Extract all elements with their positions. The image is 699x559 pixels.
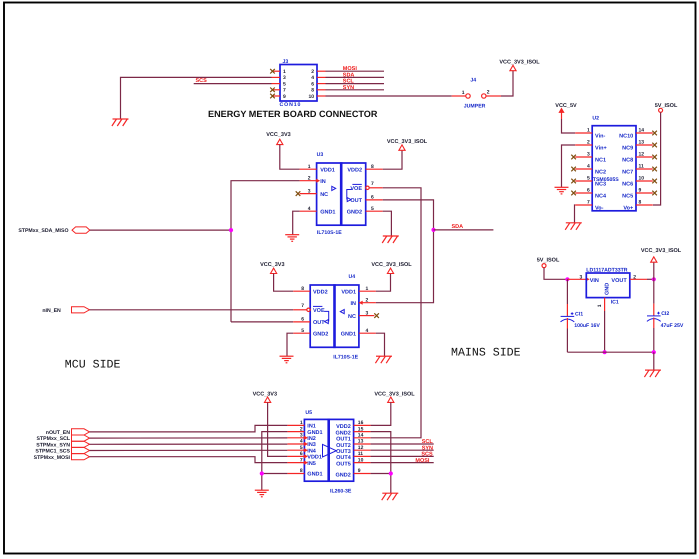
svg-text:1: 1 <box>587 128 590 134</box>
wire U3 pin5 to chassis ground <box>383 211 392 236</box>
pin 9 <box>272 95 281 97</box>
svg-text:CON10: CON10 <box>280 102 302 108</box>
svg-text:VCC_3V3_ISOL: VCC_3V3_ISOL <box>371 262 412 268</box>
capacitor CI2 47uF 25V <box>647 279 684 352</box>
wire U3 OUT to U4 IN <box>376 200 434 303</box>
svg-text:5: 5 <box>300 445 303 451</box>
power symbol VCC_3V3 at U4 <box>271 268 277 273</box>
pin 7 VOE <box>366 186 369 189</box>
wire U5 OUT2 SCL stub <box>371 443 434 445</box>
pin 14 NC10 <box>636 132 653 134</box>
svg-text:nIN_EN: nIN_EN <box>42 308 61 314</box>
pin 2 <box>317 70 326 72</box>
power symbol VCC_5V <box>558 108 564 113</box>
pin 3 <box>272 76 281 78</box>
svg-text:NC7: NC7 <box>622 169 633 175</box>
U4 internal enable path <box>324 311 328 321</box>
wire IC1 VOUT to junction <box>630 278 647 280</box>
op-amp U4 isolator IL710S-1E <box>310 285 359 347</box>
wire SYN <box>326 89 385 91</box>
svg-text:NC10: NC10 <box>619 133 633 139</box>
jumper J4 <box>452 78 501 110</box>
svg-text:SCL: SCL <box>422 439 434 445</box>
junction U5 GND2 <box>389 471 393 475</box>
svg-text:1: 1 <box>462 90 465 96</box>
pin 16 VDD2 <box>354 424 371 426</box>
svg-text:IN4: IN4 <box>307 448 317 454</box>
wire VCC_5V to U2 Vin- <box>561 112 563 120</box>
power symbol 5V_ISOL at IC1 <box>542 264 546 268</box>
svg-text:8: 8 <box>371 164 374 170</box>
pin 5 <box>272 83 281 85</box>
svg-text:J3: J3 <box>283 59 289 65</box>
power symbol VCC_3V3_ISOL <box>510 65 516 70</box>
svg-text:7: 7 <box>587 200 590 206</box>
port STPMxx_MOSI <box>34 454 90 461</box>
svg-text:J4: J4 <box>470 78 476 84</box>
pin 8 VDD2 <box>293 290 310 292</box>
svg-text:5V_ISOL: 5V_ISOL <box>537 257 560 263</box>
svg-text:IN3: IN3 <box>307 442 316 448</box>
svg-text:GND1: GND1 <box>320 209 335 215</box>
svg-text:NC5: NC5 <box>622 193 633 199</box>
svg-text:VIN: VIN <box>590 278 599 284</box>
svg-text:STPMxx_SDA_MISO: STPMxx_SDA_MISO <box>18 228 68 234</box>
svg-text:GND2: GND2 <box>347 209 362 215</box>
svg-text:10: 10 <box>639 176 645 182</box>
svg-text:VCC_3V3_ISOL: VCC_3V3_ISOL <box>387 139 428 145</box>
wire SDA stub <box>434 229 494 231</box>
svg-text:SDA: SDA <box>452 224 464 230</box>
power symbol VCC_3V3_ISOL at IC1 <box>651 257 657 262</box>
power symbol VCC_3V3_ISOL at U4 <box>387 268 393 273</box>
svg-text:LD1117ADT33TR: LD1117ADT33TR <box>586 268 627 274</box>
svg-text:ENERGY METER BOARD CONNECTOR: ENERGY METER BOARD CONNECTOR <box>208 109 378 119</box>
svg-text:12: 12 <box>358 445 364 451</box>
wire U5 GND1 net to ground <box>262 432 288 490</box>
svg-text:1: 1 <box>300 420 303 426</box>
svg-text:SDA: SDA <box>343 72 355 78</box>
wire U4 pin5 to ground <box>287 333 293 356</box>
op-amp U3 isolator IL710S-1E <box>317 163 366 225</box>
svg-text:NC6: NC6 <box>622 181 633 187</box>
svg-text:VDD2: VDD2 <box>336 424 351 430</box>
svg-text:11: 11 <box>358 451 364 457</box>
pin 6 <box>317 83 326 85</box>
svg-text:VDD2: VDD2 <box>313 289 328 295</box>
ground below U2 Vin+ <box>555 187 569 194</box>
pin 8 Vo+ <box>636 204 653 206</box>
svg-text:VCC_3V3_ISOL: VCC_3V3_ISOL <box>374 391 415 397</box>
svg-text:STPMxx_SCL: STPMxx_SCL <box>37 436 71 442</box>
svg-text:9: 9 <box>283 94 286 100</box>
pin 8 VDD2 <box>366 168 383 170</box>
svg-text:CI1: CI1 <box>575 312 583 318</box>
wire junction to VCC_3V3_ISOL <box>653 262 655 279</box>
svg-text:6: 6 <box>371 195 374 201</box>
svg-text:NC: NC <box>348 314 356 320</box>
svg-text:MOSI: MOSI <box>415 458 430 464</box>
svg-text:NC2: NC2 <box>595 169 606 175</box>
svg-text:NC1: NC1 <box>595 157 606 163</box>
svg-text:OUT: OUT <box>313 320 325 326</box>
svg-text:2: 2 <box>487 90 490 96</box>
pin 7 Vo- <box>575 204 592 206</box>
svg-text:GND2: GND2 <box>336 430 351 436</box>
wire STPMxx_SYN to U5 IN3 <box>90 443 288 445</box>
pin 3 NC no-connect <box>300 193 317 195</box>
wire ground rail <box>567 351 653 353</box>
svg-text:9: 9 <box>358 468 361 474</box>
svg-text:10: 10 <box>308 94 314 100</box>
pin 2 IN <box>300 180 317 182</box>
pin 10 <box>317 95 326 97</box>
U5 internal buffer symbol <box>323 444 337 457</box>
port STPMxx_SYN <box>36 441 89 448</box>
wire J4 to VCC_3V3_ISOL <box>501 71 513 96</box>
junction STPMxx_SDA_MISO <box>229 228 233 232</box>
wire U4 pin1 to VCC_3V3_ISOL <box>376 274 391 292</box>
svg-text:8: 8 <box>311 88 314 94</box>
wire VIN junction to IC1 <box>567 278 586 280</box>
svg-text:IN2: IN2 <box>307 436 316 442</box>
pin 5 IN4 <box>287 449 304 451</box>
svg-text:7: 7 <box>300 457 303 463</box>
svg-text:3: 3 <box>308 188 311 194</box>
wire STPMxx_SDA_MISO net <box>90 229 231 231</box>
svg-text:16: 16 <box>358 420 364 426</box>
pin 12 OUT3 <box>354 449 371 451</box>
svg-text:Vin+: Vin+ <box>595 145 607 151</box>
wire U2 Vo+ to 5V_ISOL <box>653 112 661 205</box>
svg-text:6: 6 <box>300 451 303 457</box>
svg-text:11: 11 <box>639 164 645 170</box>
wire 5V_ISOL to IC1 VIN <box>544 268 567 280</box>
wire SDA <box>326 76 385 78</box>
wire VCC_3V3_ISOL to U5 VDD2 <box>371 402 391 425</box>
port STPMC1_SCS <box>35 447 89 454</box>
svg-text:VDD2: VDD2 <box>347 167 362 173</box>
pin 9 NC5 <box>636 192 653 194</box>
svg-text:NC4: NC4 <box>595 193 607 199</box>
svg-text:8: 8 <box>301 286 304 292</box>
wire U2 Vin+ to ground <box>562 145 576 187</box>
junction VOUT <box>652 277 656 281</box>
chassis ground below U5 right <box>382 493 399 500</box>
U4 internal buffer symbol <box>340 310 344 314</box>
wire nOUT_EN to U5 IN1 <box>90 425 288 432</box>
pin 6 OUT <box>366 199 383 201</box>
svg-text:NC9: NC9 <box>622 145 633 151</box>
svg-text:OUT3: OUT3 <box>336 449 351 455</box>
wire SCS stub pin 5 <box>194 83 272 85</box>
pin 10 NC6 <box>636 180 653 182</box>
pin 3 NC no-connect <box>359 315 375 317</box>
pin 7 VOE <box>307 308 310 311</box>
svg-text:MCU SIDE: MCU SIDE <box>65 359 121 372</box>
svg-text:14: 14 <box>358 433 364 439</box>
svg-text:SYN: SYN <box>422 445 433 451</box>
port nIN_EN <box>42 307 89 314</box>
svg-text:3: 3 <box>300 433 303 439</box>
svg-text:3: 3 <box>366 310 369 316</box>
svg-text:3: 3 <box>580 274 583 280</box>
pin 15 GND2 <box>354 431 371 433</box>
power symbol 5V_ISOL <box>659 108 663 112</box>
svg-text:1: 1 <box>597 304 603 307</box>
wire VCC_3V3 to U4 pin 8 <box>274 274 294 292</box>
wire U3 VOE to U5 OUT1 <box>371 188 421 438</box>
svg-text:5: 5 <box>587 176 590 182</box>
svg-text:14: 14 <box>639 128 645 134</box>
svg-text:4: 4 <box>587 164 590 170</box>
pin 7 IN5 <box>287 462 304 464</box>
svg-text:3: 3 <box>587 152 590 158</box>
pin 13 NC9 <box>636 144 653 146</box>
svg-text:4: 4 <box>311 75 314 81</box>
no-connect pin 7 <box>270 88 275 93</box>
pin 4 GND1 <box>359 332 376 334</box>
pin 10 OUT5 <box>354 462 371 464</box>
svg-text:VCC_3V3: VCC_3V3 <box>266 132 290 138</box>
svg-text:CI2: CI2 <box>661 311 669 317</box>
pin 3 IN2 <box>287 437 304 439</box>
pin 14 OUT1 <box>354 437 371 439</box>
svg-text:12: 12 <box>639 152 645 158</box>
chassis ground below U3 GND2 <box>382 236 399 243</box>
pin 11 OUT4 <box>354 455 371 457</box>
svg-text:1: 1 <box>366 286 369 292</box>
svg-text:100uF 16V: 100uF 16V <box>574 323 600 329</box>
wire STPMxx_SCL to U5 IN2 <box>90 437 288 439</box>
pin 6 NC4 <box>575 192 592 194</box>
pin 4 IN3 <box>287 443 304 445</box>
junction VIN <box>565 277 569 281</box>
pin 13 OUT2 <box>354 443 371 445</box>
svg-text:GND1: GND1 <box>307 430 322 436</box>
svg-text:8: 8 <box>639 200 642 206</box>
svg-text:Vo-: Vo- <box>595 205 604 211</box>
pin 11 NC7 <box>636 168 653 170</box>
pin 1 Vin- <box>575 132 592 134</box>
svg-text:OUT: OUT <box>350 198 362 204</box>
op-amp U2 TSM0505S DC-DC converter <box>592 126 636 211</box>
wire U4 pin4 to chassis ground <box>376 333 385 356</box>
power symbol VCC_3V3_ISOL at U3 <box>399 145 405 150</box>
wire U5 OUT3 SYN stub <box>371 449 434 451</box>
pin 3 NC1 <box>575 156 592 158</box>
ground below U3 GND1 <box>285 235 299 242</box>
ground chassis top-left <box>112 119 129 126</box>
svg-text:IL710S-1E: IL710S-1E <box>317 230 342 236</box>
capacitor CI1 100uF 16V <box>561 279 601 352</box>
svg-text:Vo+: Vo+ <box>623 205 633 211</box>
ground below U4 GND2 <box>280 356 294 363</box>
junction GND rail <box>603 350 607 354</box>
svg-text:5: 5 <box>301 328 304 334</box>
svg-text:VDD1: VDD1 <box>320 167 335 173</box>
svg-text:47uF 25V: 47uF 25V <box>661 323 684 329</box>
svg-text:6: 6 <box>311 81 314 87</box>
pin 6 VDD1 <box>287 455 304 457</box>
svg-text:VOUT: VOUT <box>611 278 627 284</box>
wire MOSI <box>326 70 385 72</box>
svg-text:13: 13 <box>639 140 645 146</box>
svg-text:SCS: SCS <box>421 452 433 458</box>
voltage regulator IC1 LD1117ADT33TR <box>586 273 630 298</box>
svg-text:2: 2 <box>587 140 590 146</box>
power symbol VCC_3V3_ISOL at U5 <box>388 397 394 402</box>
pin 2 GND1 <box>287 431 304 433</box>
svg-text:NC8: NC8 <box>622 157 633 163</box>
svg-text:U4: U4 <box>349 274 356 280</box>
svg-text:5: 5 <box>283 81 286 87</box>
svg-text:U5: U5 <box>305 410 312 416</box>
svg-text:U2: U2 <box>592 115 599 121</box>
wire STPMxx_MOSI to U5 IN5 <box>90 457 288 463</box>
svg-text:STPMC1_SCS: STPMC1_SCS <box>35 449 70 455</box>
svg-text:OUT2: OUT2 <box>336 443 351 449</box>
svg-text:VCC_3V3_ISOL: VCC_3V3_ISOL <box>499 59 540 65</box>
svg-text:U3: U3 <box>317 152 324 158</box>
pin 4 GND1 <box>300 210 317 212</box>
pin 2 IN <box>359 302 376 304</box>
svg-text:2: 2 <box>300 426 303 432</box>
pin 7 <box>272 89 281 91</box>
junction U5 GND1 <box>260 471 264 475</box>
svg-text:4: 4 <box>366 328 369 334</box>
junction SDA <box>431 228 435 232</box>
svg-text:IC1: IC1 <box>611 299 619 305</box>
svg-text:10: 10 <box>358 457 364 463</box>
connector J3 CON10 <box>280 65 317 102</box>
svg-text:nOUT_EN: nOUT_EN <box>46 430 70 436</box>
svg-text:VDD1: VDD1 <box>341 289 356 295</box>
svg-text:GND2: GND2 <box>336 472 351 478</box>
svg-text:STPMxx_SYN: STPMxx_SYN <box>36 442 70 448</box>
svg-text:7: 7 <box>371 181 374 187</box>
svg-text:GND: GND <box>604 283 610 295</box>
pin 9 GND2 <box>354 473 371 475</box>
pin 5 GND2 <box>366 210 383 212</box>
svg-text:IL260-3E: IL260-3E <box>330 489 352 495</box>
svg-text:VCC_3V3_ISOL: VCC_3V3_ISOL <box>641 248 682 254</box>
svg-text:SCL: SCL <box>343 79 355 85</box>
wire VCC_3V3 to U5 VDD1 <box>268 402 288 456</box>
svg-text:VDD1: VDD1 <box>307 455 322 461</box>
svg-text:VCC_5V: VCC_5V <box>555 103 577 109</box>
svg-text:15: 15 <box>358 426 364 432</box>
op-amp U5 IL260-3E <box>304 419 353 481</box>
svg-text:OUT5: OUT5 <box>336 461 351 467</box>
svg-text:9: 9 <box>639 188 642 194</box>
pin 2 Vin+ <box>575 144 592 146</box>
svg-text:5: 5 <box>371 206 374 212</box>
svg-text:OUT4: OUT4 <box>336 455 352 461</box>
wire U3 pin4 to ground <box>293 211 300 234</box>
pin 1 VDD1 <box>300 168 317 170</box>
svg-text:JUMPER: JUMPER <box>464 103 486 109</box>
port nOUT_EN <box>46 429 90 436</box>
pin 5 NC3 <box>575 180 592 182</box>
wire rail to chassis ground <box>653 352 655 370</box>
svg-text:IN: IN <box>351 301 357 307</box>
no-connect pin 9 <box>270 94 275 99</box>
wire U2 Vo- to chassis ground <box>574 205 577 223</box>
svg-text:7: 7 <box>283 88 286 94</box>
wire U5 GND2 net to chassis ground <box>371 432 391 493</box>
svg-text:6: 6 <box>587 188 590 194</box>
wire VCC_3V3 to U3 pin 1 <box>280 145 300 170</box>
pin 12 NC8 <box>636 156 653 158</box>
svg-text:IN1: IN1 <box>307 424 316 430</box>
svg-text:IN5: IN5 <box>307 461 316 467</box>
svg-text:GND1: GND1 <box>341 331 356 337</box>
pin 8 <box>317 89 326 91</box>
pin 8 GND1 <box>287 473 304 475</box>
svg-text:SCS: SCS <box>196 78 208 84</box>
U3 internal buffer symbol <box>332 186 336 190</box>
no-connect pin 1 <box>270 69 275 74</box>
svg-text:STPMxx_MOSI: STPMxx_MOSI <box>34 455 71 461</box>
pin 5 GND2 <box>293 332 310 334</box>
wire SCL <box>326 83 385 85</box>
ground below U5 left <box>255 490 269 497</box>
power symbol VCC_3V3 <box>277 139 283 144</box>
svg-text:VCC_3V3: VCC_3V3 <box>260 262 284 268</box>
port STPMxx_SDA_MISO <box>18 227 89 234</box>
svg-text:VOE: VOE <box>313 308 325 314</box>
wire IC1 GND pin down to rail <box>604 298 606 311</box>
svg-text:VCC_3V3: VCC_3V3 <box>253 391 277 397</box>
junction rail right <box>652 350 656 354</box>
svg-text:NC3: NC3 <box>595 181 606 187</box>
wire pin10 to jumper J4 <box>326 95 452 97</box>
pin 1 <box>272 70 281 72</box>
chassis ground below U4 GND1 <box>375 356 392 363</box>
svg-text:2: 2 <box>308 176 311 182</box>
svg-text:IN: IN <box>320 179 326 185</box>
port STPMxx_SCL <box>37 435 90 442</box>
svg-text:GND1: GND1 <box>307 472 322 478</box>
svg-text:4: 4 <box>300 439 303 445</box>
wire STPMC1_SCS to U5 IN4 <box>90 449 288 451</box>
svg-text:2: 2 <box>366 298 369 304</box>
svg-text:3: 3 <box>283 75 286 81</box>
wire nIN_EN to U4 VOE <box>90 309 294 311</box>
wire U5 OUT4 SCS stub <box>371 455 434 457</box>
svg-text:8: 8 <box>300 468 303 474</box>
svg-text:GND2: GND2 <box>313 331 328 337</box>
svg-text:2: 2 <box>311 69 314 75</box>
svg-text:4: 4 <box>308 206 311 212</box>
svg-text:1: 1 <box>283 69 286 75</box>
chassis ground below U2 Vo- <box>565 223 582 230</box>
power symbol VCC_3V3 at U5 <box>265 397 271 402</box>
svg-text:13: 13 <box>358 439 364 445</box>
pin 1 VDD1 <box>359 290 376 292</box>
wire U5 OUT5 MOSI stub <box>371 462 434 464</box>
svg-text:MAINS SIDE: MAINS SIDE <box>451 347 521 360</box>
svg-text:OUT1: OUT1 <box>336 437 351 443</box>
svg-text:SYN: SYN <box>343 85 354 91</box>
chassis ground below IC1 <box>644 370 661 377</box>
svg-text:NC: NC <box>320 192 328 198</box>
wire U3 pin8 to VCC_3V3_ISOL <box>383 150 402 169</box>
U3 internal enable path <box>347 190 352 200</box>
svg-text:Vin-: Vin- <box>595 133 605 139</box>
svg-text:5V_ISOL: 5V_ISOL <box>655 103 678 109</box>
